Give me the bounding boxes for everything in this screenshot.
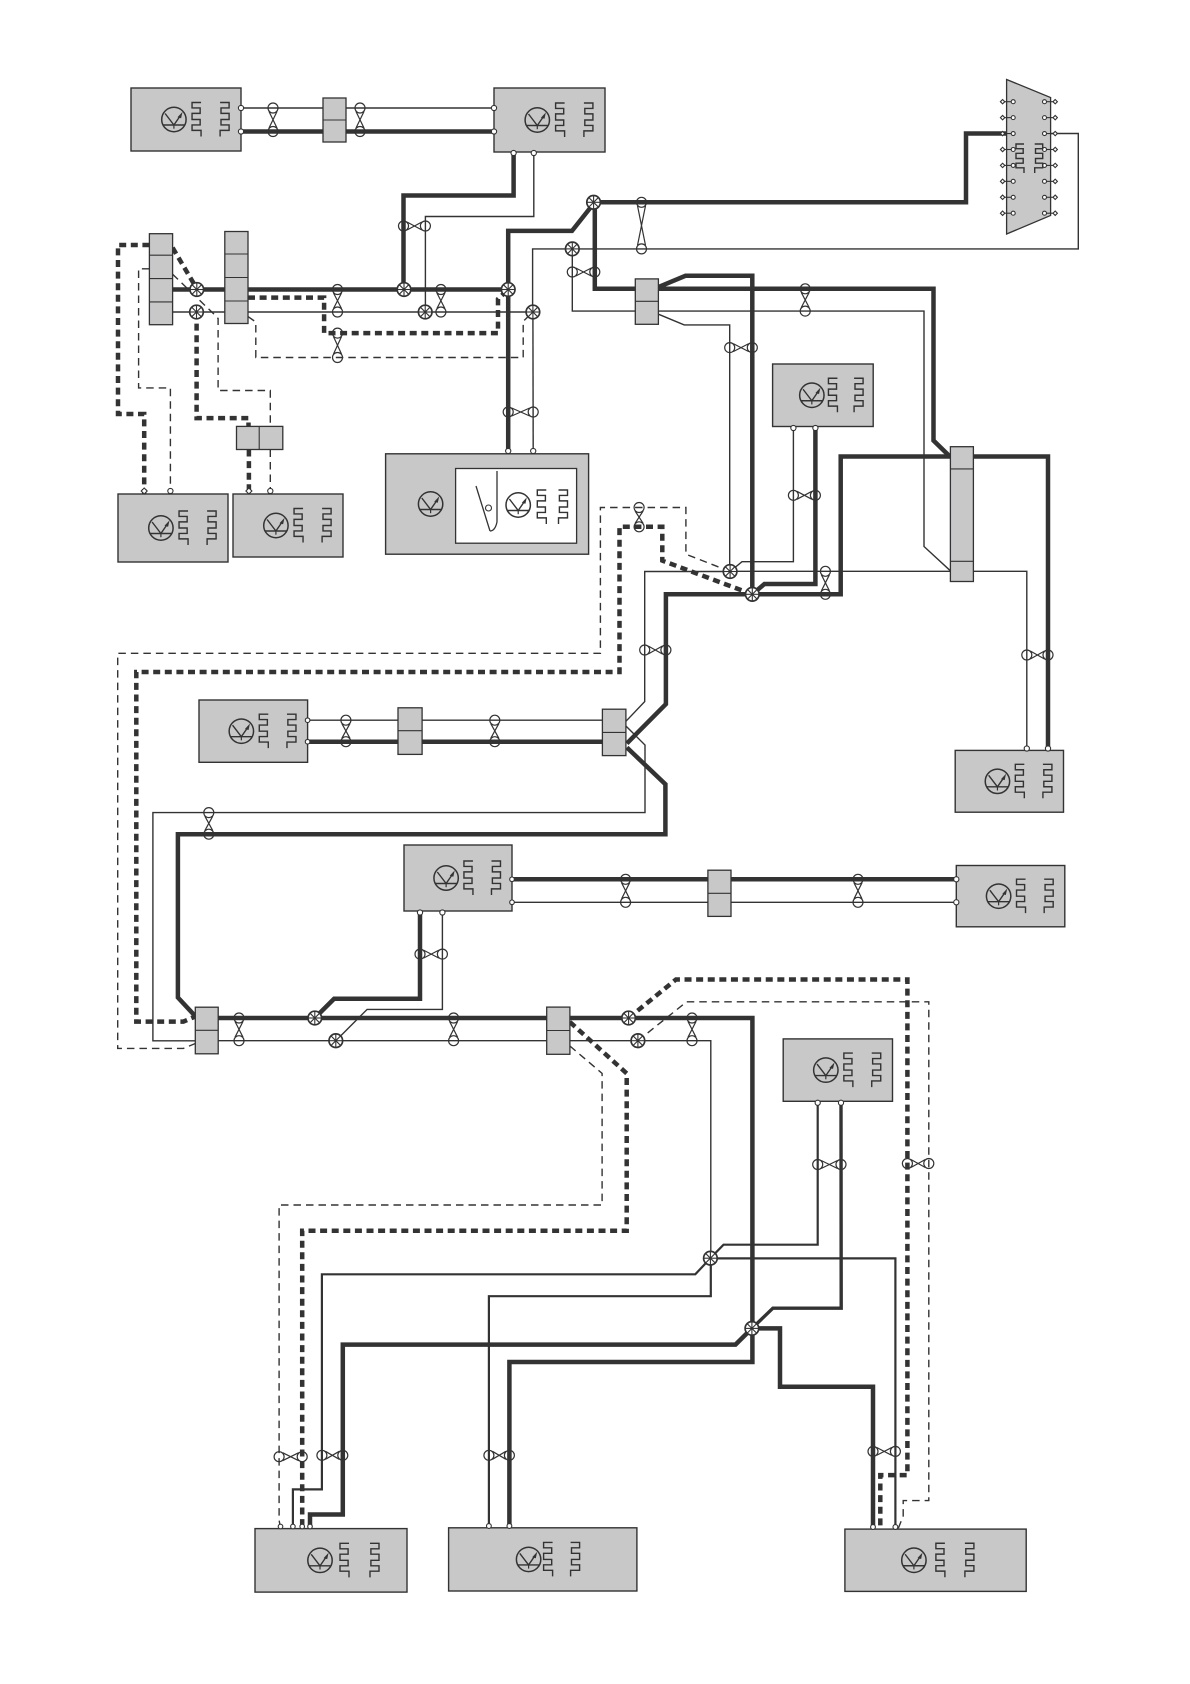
wire thick J1 diag to J2 <box>508 203 594 290</box>
wire thin-dash S2 to J5 <box>248 312 533 358</box>
inline connector SB1 <box>635 279 658 324</box>
pin B thin-bottom <box>531 150 536 155</box>
wire thick bus SB7 right down <box>570 1018 753 1328</box>
junction J3 <box>190 283 204 297</box>
pin F thick <box>813 425 818 430</box>
wire thin-dash SBp to D <box>269 450 271 495</box>
junction Jf <box>329 1034 343 1048</box>
twist pair B verticals <box>399 221 409 231</box>
module L <box>255 1529 407 1593</box>
pin M thick <box>507 1524 512 1529</box>
wire thin G to SB4 <box>308 719 603 721</box>
module C <box>118 494 228 562</box>
module F <box>773 364 874 427</box>
junction Jc <box>704 1251 718 1265</box>
wire thick SB4 down-left loop <box>178 748 666 1017</box>
twist bus-thin 1 <box>333 285 343 295</box>
wire thin B down-left <box>425 152 533 312</box>
wire thin-dash SB7 to L <box>279 1046 602 1529</box>
wire thick J1 to X1 <box>594 134 1007 203</box>
inline connector W1 <box>323 98 346 142</box>
pin G thin <box>305 718 310 723</box>
pin M thin <box>487 1524 492 1529</box>
twist Ja-Jb pair <box>820 566 830 576</box>
twist dashed right pair <box>902 1159 912 1169</box>
junction J3b <box>397 283 411 297</box>
inline connector SB4 <box>602 709 626 755</box>
pin B thick-bottom <box>511 150 516 155</box>
wire thin-dash Ja loop to SB5 <box>118 508 730 1049</box>
module K <box>783 1039 892 1101</box>
pin N thick <box>871 1525 876 1530</box>
wire thick Jb right up to S3 <box>752 457 950 595</box>
pin L 1 <box>278 1524 283 1529</box>
wire thin I-J <box>512 901 956 903</box>
module N <box>845 1529 1026 1591</box>
wire thick G to SB4 <box>308 739 603 744</box>
module D <box>233 494 343 557</box>
pin L 3 <box>300 1524 305 1529</box>
wire thick Jd to L <box>310 1328 752 1528</box>
pin B thin-left <box>491 105 496 110</box>
wire thick-dash S1 to C <box>118 245 149 494</box>
wire med Jc to K <box>710 1101 817 1258</box>
pin J thick <box>954 877 959 882</box>
junction Ja <box>723 565 737 579</box>
pin E thin <box>531 448 536 453</box>
pin L 2 <box>291 1524 296 1529</box>
wire thick-dash SBp to D <box>247 450 252 495</box>
wire thin bus SB5-SB7 <box>218 1040 547 1042</box>
wire thick S3 to H <box>973 457 1048 751</box>
twist pair X1 <box>637 197 647 207</box>
wire thick Jb to F <box>752 427 815 595</box>
wire thick-dash J4 to SBp <box>197 312 249 426</box>
wire thick SB1 up to Jb <box>658 276 752 595</box>
module G <box>199 700 308 762</box>
wire thick bus SB5-SB7 <box>218 1016 547 1021</box>
junction Jd <box>745 1322 759 1336</box>
wire thin-dash Jh to N <box>638 1002 929 1529</box>
wire thick-dash diag S1-J3 <box>173 248 197 289</box>
twist I-J 2 <box>853 874 863 884</box>
connector X1 <box>1007 80 1051 235</box>
twist I-J 1 <box>621 874 631 884</box>
twist H pins <box>1022 650 1032 660</box>
pin I right thin <box>510 900 515 905</box>
wire thick B down-left to bus <box>404 152 514 290</box>
module I <box>404 845 512 911</box>
twist F pins <box>788 490 798 500</box>
twist left loop <box>204 808 214 818</box>
wire thin-dash S1 to C <box>139 269 171 494</box>
twist I pins <box>415 949 425 959</box>
wire thick A-B <box>241 129 494 134</box>
wire med Jc to L <box>293 1258 711 1528</box>
pin A thick <box>238 129 243 134</box>
wire thin SB4 down-left loop <box>153 726 645 1041</box>
pin A thin <box>238 105 243 110</box>
wire thick-dash S2 to J2 <box>248 290 508 334</box>
wire thin A-B <box>241 107 494 109</box>
wire thick Jd to M <box>509 1328 752 1527</box>
inline connector SB5 <box>195 1007 218 1054</box>
twist K pins <box>813 1160 823 1170</box>
module A <box>131 88 241 151</box>
module M <box>449 1528 637 1591</box>
junction J1 <box>587 196 601 210</box>
junction Jg <box>622 1011 636 1025</box>
wire thin J6 to J5 <box>533 249 573 312</box>
twist J6 verticals <box>567 267 577 277</box>
wire thick K to Jd <box>752 1101 841 1328</box>
twist L dashed pair <box>274 1452 284 1462</box>
pin E thick <box>506 448 511 453</box>
wire thick bus S1-J2 <box>173 287 509 292</box>
twist dashed loop <box>634 503 644 513</box>
twist G pair 1 <box>341 715 351 725</box>
wire thin X1 right down <box>572 134 1078 249</box>
stack connector S2 <box>225 232 248 324</box>
module E <box>386 454 589 554</box>
wire thin-dash diag S1 down <box>173 274 271 426</box>
pin G thick <box>305 739 310 744</box>
pin I right thick <box>510 877 515 882</box>
pin H thick <box>1045 746 1050 751</box>
wire thin J6 down to SB1 <box>572 249 635 311</box>
wire med Jc to M <box>489 1258 711 1528</box>
wire thick-dash Jg to N <box>629 980 908 1530</box>
twist SB4 verticals <box>640 645 650 655</box>
stack connector S1 <box>149 234 172 325</box>
module H <box>955 750 1063 812</box>
wire thin Ja to S3 <box>730 570 950 572</box>
wire thin Ja left down to SB4 <box>626 572 730 722</box>
twist pair A-B 2 <box>355 103 365 113</box>
twist SB1 down pair <box>725 343 735 353</box>
wire thin S1-J5 <box>173 311 533 313</box>
twist SB1 pair <box>800 284 810 294</box>
inline connector SB6 <box>708 870 731 916</box>
twist bus2 1 <box>234 1013 244 1023</box>
wire thin SB1 to S3 bottom <box>658 311 950 571</box>
pin C 1 <box>141 488 147 494</box>
junction J6 <box>566 242 580 256</box>
wire thick Jd to N <box>752 1328 873 1529</box>
stack connector S3 <box>950 447 973 582</box>
pin K right <box>838 1100 843 1105</box>
pin I bottom thick <box>417 910 422 915</box>
module J <box>956 866 1065 927</box>
wire thin I to Jf <box>336 911 443 1041</box>
inline connector SB7 <box>547 1007 570 1054</box>
wire thin bus SB7 right down <box>570 1041 711 1259</box>
wire thin S3 to H <box>973 571 1026 750</box>
junction J5 <box>526 305 540 319</box>
junction Je <box>308 1011 322 1025</box>
junction J2 <box>501 283 515 297</box>
pin C 2 <box>168 488 173 493</box>
junction J4b <box>418 305 432 319</box>
wire thick-dash Jb loop to SB5 <box>136 527 752 1022</box>
junction Jh <box>631 1034 645 1048</box>
wire thin J5 to E <box>532 312 534 452</box>
junction Jb <box>746 588 760 602</box>
pin D 1 <box>246 488 252 494</box>
wire med Jc to N <box>710 1258 895 1529</box>
pair connector SBp <box>237 426 283 449</box>
wire thin SB1 down to Ja <box>658 314 729 571</box>
pin K left <box>815 1100 820 1105</box>
junction J4 <box>190 305 204 319</box>
pin L 4 <box>308 1524 313 1529</box>
pin I bottom thin <box>440 910 445 915</box>
wire thin Ja to F <box>730 427 793 572</box>
wire thick I to Je <box>315 911 420 1018</box>
wire thick-dash SB7 to L <box>302 1022 627 1529</box>
wire thick I-J <box>512 877 956 882</box>
pin B thick-left <box>491 129 496 134</box>
twist L solid pair <box>317 1450 327 1460</box>
pin F thin <box>791 425 796 430</box>
twist E pins <box>503 407 513 417</box>
twist S2 dashed <box>333 328 343 338</box>
inline connector W2 <box>398 708 422 755</box>
wire thick J1 down to SB1 <box>595 202 636 288</box>
twist G pair 2 <box>490 715 500 725</box>
module B <box>494 88 605 152</box>
pin D 2 <box>268 488 273 493</box>
wire thick Jb left down to SB4 <box>627 594 752 743</box>
pin N thin <box>893 1525 898 1530</box>
pin J thin <box>954 900 959 905</box>
pin H thin <box>1024 746 1029 751</box>
twist pair A-B 1 <box>268 103 278 113</box>
wire thick SB1 to S3 top <box>658 289 950 457</box>
twist M pins <box>484 1450 494 1460</box>
twist bus-thin 2 <box>436 285 446 295</box>
twist bus2 3 <box>687 1013 697 1023</box>
wire thick J2 to E <box>506 290 511 453</box>
twist bus2 2 <box>449 1013 459 1023</box>
twist N pins <box>868 1446 878 1456</box>
